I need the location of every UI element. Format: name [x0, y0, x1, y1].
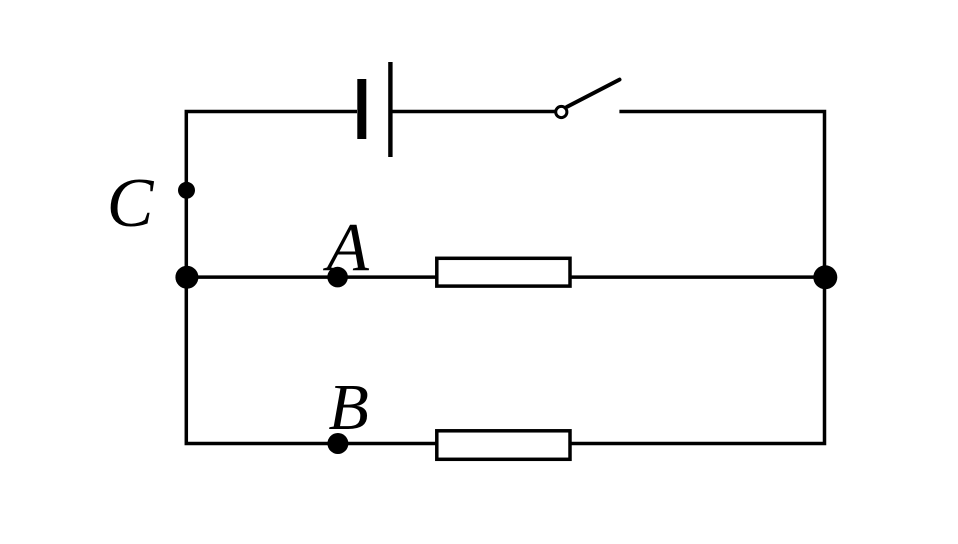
svg-text:A: A	[323, 209, 370, 285]
svg-text:C: C	[107, 165, 155, 242]
svg-text:B: B	[329, 371, 369, 444]
